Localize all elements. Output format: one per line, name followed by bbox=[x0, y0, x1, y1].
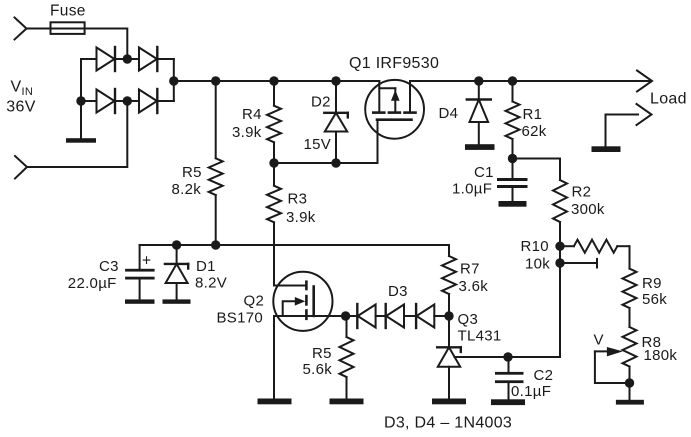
transistor Q2 gate bar bbox=[312, 287, 315, 316]
capacitor C3 22uF bbox=[125, 245, 155, 299]
svg-text:R7: R7 bbox=[460, 261, 480, 278]
node dot R1 bottom C1 bbox=[508, 154, 517, 163]
wire R10 wiper tap bbox=[560, 259, 597, 268]
ground C2 bbox=[491, 399, 525, 405]
node dot D2 bottom bbox=[331, 158, 340, 167]
svg-text:C1: C1 bbox=[474, 164, 494, 181]
svg-text:15V: 15V bbox=[304, 136, 332, 153]
input terminal top bbox=[15, 18, 27, 40]
diode bridge D-b bbox=[139, 47, 157, 71]
svg-text:R2: R2 bbox=[572, 184, 592, 201]
node dot D2 top bbox=[331, 76, 340, 85]
svg-text:1.0µF: 1.0µF bbox=[452, 181, 492, 198]
label VIN bbox=[6, 79, 35, 116]
svg-text:10k: 10k bbox=[525, 256, 550, 273]
svg-text:R5: R5 bbox=[312, 345, 332, 362]
wire bridge right side bbox=[173, 59, 175, 101]
label Q2 BS170 bbox=[217, 293, 265, 327]
label R10 10k bbox=[521, 238, 551, 273]
zener D2 15V bbox=[324, 81, 348, 163]
capacitor C1 bbox=[497, 159, 528, 202]
ground C1 bbox=[499, 201, 527, 207]
svg-text:Q3: Q3 bbox=[458, 311, 479, 328]
resistor R10 10k bbox=[560, 240, 630, 253]
node dot R5 bottom bbox=[211, 240, 220, 249]
transistor Q1 channel dashes bbox=[373, 111, 415, 114]
wire D3 segment 1 bbox=[346, 315, 358, 317]
label R3 3.9k bbox=[286, 191, 316, 227]
resistor R7 3.6k bbox=[442, 256, 456, 316]
wire C1 node to R2 bbox=[513, 159, 561, 181]
svg-text:R4: R4 bbox=[242, 106, 262, 123]
wire Q3 ref line bbox=[455, 356, 561, 358]
label C1 1.0uF bbox=[452, 164, 494, 198]
ground D4 bbox=[465, 144, 495, 150]
svg-text:300k: 300k bbox=[571, 201, 605, 218]
capacitor C2 0.1uF bbox=[495, 357, 524, 399]
resistor R5 5.6k lower bbox=[340, 316, 354, 399]
ground R8 bbox=[616, 400, 644, 405]
diode D3 a bbox=[357, 304, 375, 328]
resistor R4 3.9k bbox=[267, 81, 281, 163]
svg-text:R9: R9 bbox=[642, 275, 662, 292]
transistor Q2 channel dashes bbox=[305, 282, 308, 319]
diode bridge D-d bbox=[139, 89, 157, 113]
wire fuse line bbox=[27, 29, 128, 60]
transistor Q1 circle bbox=[365, 80, 424, 139]
resistor R3 3.9k bbox=[267, 163, 281, 286]
wire bridge row2 bbox=[81, 100, 174, 102]
svg-text:Fuse: Fuse bbox=[50, 3, 86, 20]
node dot bridge output bbox=[169, 76, 178, 85]
svg-text:5.6k: 5.6k bbox=[303, 361, 333, 378]
transistor Q1 gate lead bbox=[377, 120, 379, 163]
svg-text:22.0µF: 22.0µF bbox=[68, 275, 117, 292]
wire lower input bbox=[27, 101, 127, 167]
svg-text:3.9k: 3.9k bbox=[286, 209, 316, 226]
node dot bridge top bbox=[123, 54, 132, 63]
node dot R7 bottom bbox=[444, 311, 453, 320]
node dot R4 bottom bbox=[269, 158, 278, 167]
ground load return bbox=[592, 146, 621, 152]
zener D1 8.2V bbox=[165, 245, 188, 299]
diode bridge D-a bbox=[97, 47, 116, 71]
svg-text:62k: 62k bbox=[522, 123, 547, 140]
wire node A rail bbox=[140, 245, 449, 256]
load return terminal arrow bbox=[637, 104, 652, 125]
potentiometer R8 180k bbox=[623, 327, 637, 400]
node dot R10 wiper bbox=[555, 258, 564, 267]
potentiometer R8 wiper arm bbox=[595, 347, 630, 383]
label R7 3.6k bbox=[459, 261, 489, 296]
transistor Q2 drain lead bbox=[274, 285, 306, 287]
wire load return bbox=[606, 115, 639, 147]
svg-text:TL431: TL431 bbox=[458, 328, 502, 345]
diode D3 c bbox=[416, 304, 434, 328]
svg-text:8.2V: 8.2V bbox=[195, 274, 227, 291]
svg-text:R3: R3 bbox=[288, 191, 308, 208]
node dot D1 top bbox=[172, 240, 181, 249]
node dot C2 top bbox=[503, 352, 512, 361]
transistor Q1 gate bar bbox=[377, 118, 412, 121]
node dot R8 bottom bbox=[625, 378, 634, 387]
transistor Q2 source lead bbox=[274, 315, 314, 317]
node dot bridge row2 mid bbox=[123, 96, 132, 105]
svg-text:0.1µF: 0.1µF bbox=[511, 383, 551, 400]
label R8 180k bbox=[642, 334, 678, 364]
ground bridge bbox=[66, 138, 96, 143]
svg-text:Load: Load bbox=[650, 91, 687, 108]
label R9 56k bbox=[642, 275, 667, 308]
wire through fuse bbox=[52, 28, 84, 30]
label R4 3.9k bbox=[232, 106, 262, 141]
output terminal arrow bbox=[637, 71, 652, 92]
svg-text:Q2: Q2 bbox=[244, 293, 265, 310]
node dot R10 left bbox=[555, 242, 564, 251]
svg-text:R10: R10 bbox=[521, 238, 549, 255]
svg-text:8.2k: 8.2k bbox=[172, 181, 202, 198]
transistor Q2 gate lead bbox=[314, 315, 346, 317]
node dot R5 top bbox=[211, 76, 220, 85]
svg-text:3.9k: 3.9k bbox=[232, 124, 262, 141]
node dot R1 top bbox=[508, 76, 517, 85]
wire R10 to R9 bbox=[629, 246, 631, 268]
label C3 22.0uF bbox=[68, 258, 119, 292]
svg-text:C3: C3 bbox=[99, 258, 119, 275]
transistor Q1 body arrow bbox=[379, 88, 399, 111]
wire Q2 source to ground bbox=[273, 316, 275, 399]
ground Q3 bbox=[432, 399, 466, 405]
label D1 8.2V bbox=[195, 258, 227, 291]
svg-text:BS170: BS170 bbox=[217, 310, 264, 327]
wire top rail left of Q1 bbox=[174, 80, 379, 82]
label R2 300k bbox=[571, 184, 605, 219]
wire D3 segment 2 bbox=[376, 315, 386, 317]
svg-text:R5: R5 bbox=[182, 164, 202, 181]
wire bridge row1 bbox=[81, 58, 174, 60]
svg-text:D4: D4 bbox=[439, 105, 459, 122]
transistor Q1 source lead bbox=[378, 81, 380, 111]
shunt regulator Q3 TL431 bbox=[437, 316, 461, 399]
wire gate node line bbox=[274, 162, 378, 164]
node dot bridge row2 left bbox=[76, 96, 85, 105]
svg-text:V: V bbox=[594, 332, 604, 349]
label R5 8.2k bbox=[172, 164, 202, 198]
transistor Q2 circle bbox=[273, 272, 332, 331]
diode bridge D-c bbox=[97, 89, 116, 113]
label R5 5.6k bbox=[303, 345, 333, 378]
ground R5 lower bbox=[330, 399, 364, 405]
svg-text:D2: D2 bbox=[311, 94, 331, 111]
transistor Q1 drain lead bbox=[409, 81, 411, 111]
wire top rail right of Q1 bbox=[410, 80, 650, 82]
node dot R4 top bbox=[269, 76, 278, 85]
svg-text:Q1 IRF9530: Q1 IRF9530 bbox=[349, 55, 439, 72]
ground Q2 bbox=[258, 399, 292, 405]
node dot Q2 gate bbox=[341, 311, 350, 320]
label Q3 TL431 bbox=[458, 311, 502, 345]
svg-text:+: + bbox=[142, 253, 151, 270]
svg-text:180k: 180k bbox=[644, 347, 678, 364]
fuse F1 bbox=[51, 22, 85, 34]
resistor R5 8.2k bbox=[209, 81, 223, 245]
svg-text:36V: 36V bbox=[6, 98, 35, 115]
input terminal bottom bbox=[15, 156, 27, 179]
wire D3 segment 3 bbox=[404, 315, 416, 317]
svg-text:3.6k: 3.6k bbox=[459, 278, 489, 295]
resistor R2 300k bbox=[553, 180, 567, 246]
svg-text:D3: D3 bbox=[388, 283, 408, 300]
svg-text:C2: C2 bbox=[534, 367, 554, 384]
svg-text:D3, D4 – 1N4003: D3, D4 – 1N4003 bbox=[384, 415, 512, 432]
node dot D4 top bbox=[474, 76, 483, 85]
label R1 62k bbox=[522, 106, 547, 140]
resistor R1 62k bbox=[506, 81, 520, 159]
svg-text:D1: D1 bbox=[196, 258, 216, 275]
label C2 0.1uF bbox=[511, 367, 553, 400]
wire bridge left side bbox=[80, 59, 82, 138]
svg-text:56k: 56k bbox=[642, 291, 667, 308]
transistor Q2 body arrow bbox=[283, 297, 306, 316]
ground D1 bbox=[163, 299, 191, 303]
svg-text:R1: R1 bbox=[523, 106, 543, 123]
wire R2 bottom to ref bbox=[559, 246, 561, 357]
ground C3 bbox=[125, 299, 155, 303]
diode D4 bbox=[467, 81, 491, 144]
wire D3 segment 4 bbox=[434, 315, 449, 317]
resistor R9 56k bbox=[623, 269, 637, 327]
diode D3 b bbox=[386, 304, 404, 328]
